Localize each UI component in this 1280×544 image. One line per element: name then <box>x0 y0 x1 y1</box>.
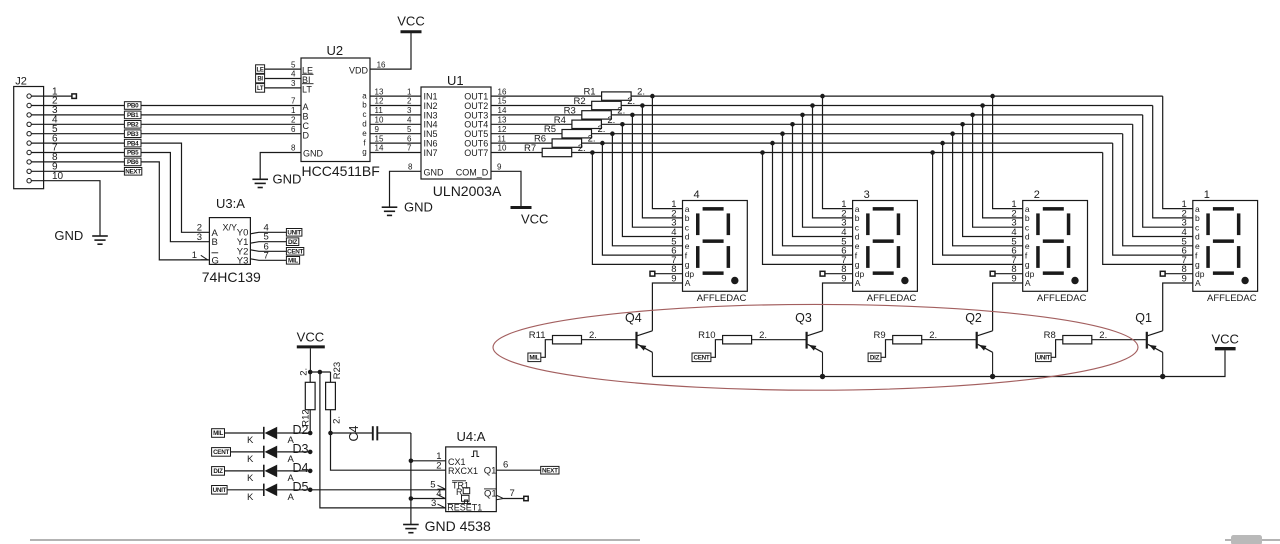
net label CENT to R10 <box>692 340 723 362</box>
net label PB5 <box>124 149 141 157</box>
U1 pin names IN7/OUT7 <box>424 148 489 158</box>
U1 OUT5 pin 12 wire to resistor R5 <box>491 125 562 134</box>
display 4 pin 3 label c <box>671 218 689 233</box>
svg-text:R11: R11 <box>529 330 546 341</box>
display 3 pin 3 label c <box>841 218 859 233</box>
U1 pin 8 GND wire to ground <box>390 163 445 208</box>
U1 OUT1 pin 16 wire to resistor R1 <box>491 87 602 96</box>
svg-text:D3: D3 <box>293 442 309 456</box>
wire U2 g (pin 14) to U1 IN7 (pin 7) <box>362 144 421 157</box>
display 4 pin 7 label g <box>671 255 689 270</box>
display 3 pin 8 label dp <box>841 264 864 279</box>
power VCC (bottom left) <box>297 330 325 373</box>
display 3 pin 6 label f <box>841 246 857 261</box>
resistor R6 <box>534 134 596 148</box>
svg-text:10: 10 <box>498 144 507 153</box>
wire PB6 to U3 G <box>141 162 209 260</box>
svg-text:A: A <box>1195 278 1201 288</box>
svg-text:CENT: CENT <box>213 449 229 456</box>
svg-text:16: 16 <box>377 61 386 70</box>
svg-text:12: 12 <box>498 125 507 134</box>
svg-text:VDD: VDD <box>349 66 369 76</box>
display 3 pin 1 label a <box>841 199 859 214</box>
U3 pin 3 B <box>197 232 218 248</box>
U4 pin 2 RXCX1 <box>436 460 478 476</box>
display 1 pin 8 label dp <box>1182 264 1205 279</box>
display 4 pin 4 label d <box>671 227 689 242</box>
svg-text:9: 9 <box>375 125 380 134</box>
wire bus e drop to display 2 pin 5 <box>953 134 1023 246</box>
svg-text:8: 8 <box>408 163 413 172</box>
svg-text:NEXT: NEXT <box>125 169 141 176</box>
display 1 pin 7 label g <box>1182 255 1200 270</box>
wire PB0 to U2 pin A <box>141 105 301 107</box>
svg-text:HCC4511BF: HCC4511BF <box>302 163 380 179</box>
U4 pin 1 CX1 <box>436 451 465 467</box>
junction dots on bus d <box>620 122 965 127</box>
svg-text:D5: D5 <box>293 480 309 494</box>
display 1 pin 5 label e <box>1182 236 1200 251</box>
resistor R23 (vertical) <box>326 362 343 433</box>
U2 pin 6 D <box>291 125 310 140</box>
resistor R5 <box>544 124 606 138</box>
wire bus f drop to display 4 pin 6 <box>602 143 682 255</box>
net label PB4 <box>124 139 141 147</box>
svg-text:GND: GND <box>424 168 445 178</box>
svg-text:K: K <box>247 492 254 503</box>
svg-text:Q2: Q2 <box>965 311 982 325</box>
bus wire segment b from R2 to display 1 <box>621 105 1152 107</box>
resistor R10 <box>698 330 805 344</box>
svg-text:LT: LT <box>302 85 312 95</box>
svg-text:13: 13 <box>375 87 384 96</box>
wire bus c drop to display 3 pin 3 <box>803 115 853 227</box>
svg-text:CENT: CENT <box>693 355 709 362</box>
ground (U4 / C4) <box>403 518 491 534</box>
bus wire segment f from R6 to display 1 <box>582 142 1113 144</box>
display 3 pin 2 label b <box>841 208 859 223</box>
svg-text:D2: D2 <box>293 423 309 437</box>
svg-text:LE: LE <box>257 67 264 73</box>
display 2 pin 7 label g <box>1011 255 1029 270</box>
IC U1 ULN2003A body <box>421 73 502 199</box>
wire anode bus to U4 TR (pin 5) <box>310 489 446 491</box>
svg-text:UNIT: UNIT <box>213 487 227 494</box>
net label PB3 <box>124 130 141 138</box>
svg-text:15: 15 <box>498 97 507 106</box>
svg-text:Q3: Q3 <box>795 311 812 325</box>
wire U2 f (pin 15) to U1 IN6 (pin 6) <box>363 134 421 147</box>
svg-text:U4:A: U4:A <box>457 429 486 444</box>
svg-text:7: 7 <box>291 97 296 106</box>
net label DIZ to diode D4 <box>212 467 264 476</box>
net label DIZ to R9 <box>868 340 893 362</box>
wire bus a drop to display 3 pin 1 <box>823 96 853 209</box>
display 2 pin 5 label e <box>1011 236 1029 251</box>
display 2 pin 3 label c <box>1011 218 1029 233</box>
svg-text:U3:A: U3:A <box>216 196 245 211</box>
resistor R1 <box>583 87 645 101</box>
svg-text:R8: R8 <box>1044 330 1056 341</box>
svg-text:PB6: PB6 <box>127 159 139 166</box>
wire VCC node to R12 R13 and reset line <box>308 370 331 375</box>
U3 output Y1 pin 5 to net label DIZ <box>237 232 299 248</box>
J2 pin 1 no-connect stub <box>31 94 76 99</box>
svg-text:UNIT: UNIT <box>287 230 301 237</box>
U4 pin 3 RESET1 <box>431 498 482 512</box>
svg-text:R23: R23 <box>332 362 343 379</box>
svg-text:PB3: PB3 <box>127 131 139 138</box>
resistor R8 <box>1044 330 1146 344</box>
U4 pin 4 TR2 (edge input) <box>436 487 470 503</box>
connector J2 <box>14 76 64 189</box>
wire U2 e (pin 9) to U1 IN5 (pin 5) <box>362 125 421 138</box>
net label PB6 <box>124 158 141 166</box>
svg-text:Q1: Q1 <box>1135 311 1152 325</box>
net label PB0 <box>124 102 141 110</box>
svg-text:GND: GND <box>404 200 433 215</box>
wire bus d drop to display 2 pin 4 <box>963 124 1023 236</box>
wire PB1 to U2 pin B <box>141 114 301 116</box>
wire J2 pin 4 to net label PB2 <box>31 123 124 125</box>
svg-text:R9: R9 <box>874 330 886 341</box>
display 1 pin 9 label A <box>1182 274 1201 289</box>
display 4 pin 1 label a <box>671 199 689 214</box>
svg-text:PB1: PB1 <box>127 112 139 119</box>
ground (U1 pin 8) <box>382 200 433 216</box>
wire display 3 pin 9 A to Q3 collector <box>823 283 853 331</box>
U1 pin names IN1/OUT1 <box>424 92 489 102</box>
wire bus e drop to display 3 pin 5 <box>783 134 853 246</box>
wire bus g drop to display 1 pin 7 <box>1103 153 1193 265</box>
svg-text:Q1: Q1 <box>484 488 497 499</box>
svg-text:DIZ: DIZ <box>870 355 880 362</box>
diode D2 <box>247 423 310 446</box>
svg-text:1: 1 <box>291 106 296 115</box>
U2 pin 3 LT <box>256 79 314 94</box>
svg-text:PB0: PB0 <box>127 103 139 110</box>
U1 OUT3 pin 14 wire to resistor R3 <box>491 106 582 115</box>
svg-text:c: c <box>363 110 367 119</box>
svg-text:DIZ: DIZ <box>288 239 298 246</box>
resistor R12 (vertical) <box>299 368 315 433</box>
wire bus c drop to display 2 pin 3 <box>973 115 1023 227</box>
svg-text:PB2: PB2 <box>127 122 139 129</box>
wire bus e drop to display 4 pin 5 <box>612 134 682 246</box>
display 1 pin 6 label f <box>1182 246 1198 261</box>
wire bus c drop to display 1 pin 3 <box>1143 115 1193 227</box>
display 4 pin 5 label e <box>671 236 689 251</box>
svg-text:11: 11 <box>498 134 507 143</box>
svg-text:Q1: Q1 <box>484 465 497 476</box>
svg-text:e: e <box>362 129 367 138</box>
svg-text:5: 5 <box>430 479 435 490</box>
transistor Q2 (PNP) <box>965 311 992 377</box>
net label UNIT to diode D5 <box>212 486 264 495</box>
svg-text:K: K <box>247 454 254 465</box>
diode D3 <box>247 442 310 465</box>
svg-text:GND: GND <box>273 172 302 187</box>
svg-text:GND: GND <box>303 148 324 158</box>
svg-text:OUT7: OUT7 <box>464 148 488 158</box>
svg-text:AFFLEDAC: AFFLEDAC <box>867 293 917 304</box>
display 3 pin 4 label d <box>841 227 859 242</box>
diode anode bus junction dots <box>308 431 313 492</box>
junction dots on bus e <box>610 131 955 136</box>
wire PB5 to U3 B <box>141 153 209 242</box>
wire bus d drop to display 3 pin 4 <box>793 124 853 236</box>
display 3 pin 9 label A <box>841 274 860 289</box>
U1 pin names IN4/OUT4 <box>424 120 489 130</box>
svg-text:GND: GND <box>54 228 83 243</box>
U1 OUT7 pin 10 wire to resistor R7 <box>491 144 542 153</box>
7-segment display DS1 (AFFLEDAC) body <box>1193 189 1258 304</box>
svg-text:1: 1 <box>1204 189 1210 201</box>
svg-text:2: 2 <box>1034 189 1040 201</box>
wire U2 c (pin 11) to U1 IN3 (pin 3) <box>363 106 422 119</box>
svg-text:MIL: MIL <box>213 430 223 437</box>
svg-text:10: 10 <box>375 116 384 125</box>
svg-text:VCC: VCC <box>521 212 548 227</box>
wire U2 a (pin 13) to U1 IN1 (pin 1) <box>362 87 421 100</box>
svg-text:X/Y: X/Y <box>223 223 238 233</box>
svg-text:3: 3 <box>864 189 870 201</box>
svg-text:13: 13 <box>498 116 507 125</box>
U3 output Y0 pin 4 to net label UNIT <box>237 222 302 238</box>
svg-text:4: 4 <box>694 189 700 201</box>
bus wire segment e from R5 to display 1 <box>592 133 1123 135</box>
svg-text:11: 11 <box>375 106 384 115</box>
bottom frame line <box>30 539 1280 541</box>
U2 pin 7 A <box>291 97 309 112</box>
svg-text:GND 4538: GND 4538 <box>425 518 491 534</box>
svg-text:d: d <box>362 120 366 129</box>
svg-text:A: A <box>685 278 691 288</box>
svg-text:6: 6 <box>503 460 508 471</box>
svg-text:3: 3 <box>291 79 296 88</box>
svg-text:CENT: CENT <box>287 249 303 256</box>
diode D4 <box>247 461 310 484</box>
display 4 segment graphic <box>696 207 739 284</box>
svg-text:VCC: VCC <box>1211 332 1238 347</box>
svg-text:1: 1 <box>407 87 412 96</box>
bus wire segment a from R1 to display 1 <box>631 95 1163 97</box>
wire C4 to CX1 / TR (pin 4) / ground <box>409 433 446 525</box>
svg-text:3: 3 <box>197 232 202 243</box>
svg-text:MIL: MIL <box>288 258 298 265</box>
wire U2 b (pin 12) to U1 IN2 (pin 2) <box>362 97 421 110</box>
svg-text:K: K <box>247 473 254 484</box>
svg-text:2: 2 <box>291 116 296 125</box>
net label NEXT <box>124 168 141 176</box>
svg-text:7: 7 <box>264 250 269 261</box>
U2 pin 8 GND wire to ground <box>260 144 301 180</box>
U2 pin 16 VDD wire to VCC <box>370 33 411 70</box>
display 2 pin 4 label d <box>1011 227 1029 242</box>
svg-text:9: 9 <box>497 163 502 172</box>
wire PB4 to U3 A <box>141 143 209 232</box>
display 4 pin 8 dp no-connect stub <box>650 271 683 276</box>
ground (U2 pin 8) <box>252 172 301 188</box>
svg-text:LT: LT <box>257 86 264 92</box>
wire J2 pin 8 to net label PB6 <box>31 161 124 163</box>
svg-text:VCC: VCC <box>297 330 324 345</box>
wire bus b drop to display 2 pin 2 <box>983 106 1023 218</box>
wire display 2 pin 9 A to Q2 collector <box>993 283 1023 331</box>
wire J2 pin 3 to net label PB1 <box>31 114 124 116</box>
svg-text:1: 1 <box>192 250 197 261</box>
svg-text:RXCX1: RXCX1 <box>448 466 478 476</box>
svg-text:U2: U2 <box>327 43 344 58</box>
svg-text:2.: 2. <box>331 416 342 424</box>
svg-text:b: b <box>362 101 367 110</box>
svg-text:12: 12 <box>375 97 384 106</box>
bottom right scrollbar fragment <box>1231 535 1262 544</box>
U4 pin 7 Q1-bar no-connect stub <box>484 488 528 501</box>
display 1 pin 1 label a <box>1182 199 1200 214</box>
display 2 pin 1 label a <box>1011 199 1029 214</box>
svg-text:VCC: VCC <box>397 14 424 29</box>
wire bus a drop to display 2 pin 1 <box>993 96 1023 209</box>
svg-text:ULN2003A: ULN2003A <box>433 183 502 199</box>
net label MIL to diode D2 <box>212 429 264 438</box>
svg-text:A: A <box>1025 278 1031 288</box>
transistor Q1 (PNP) <box>1135 311 1162 377</box>
svg-text:D4: D4 <box>293 461 309 475</box>
wire bus b drop to display 3 pin 2 <box>813 106 853 218</box>
svg-text:B: B <box>212 237 218 248</box>
svg-text:Q4: Q4 <box>625 311 642 325</box>
U1 OUT6 pin 11 wire to resistor R6 <box>491 134 552 143</box>
wire PB2 to U2 pin C <box>141 123 301 125</box>
power VCC (top, U2 VDD) <box>397 14 424 32</box>
svg-text:PB4: PB4 <box>127 140 139 147</box>
power VCC (below U1 COM_D) <box>511 208 549 227</box>
wire R23 node to U4 RXCX1 (pin 2) <box>331 433 446 470</box>
display 1 pin 8 dp no-connect stub <box>1160 271 1193 276</box>
wire bus f drop to display 3 pin 6 <box>773 143 853 255</box>
display 2 pin 9 label A <box>1011 274 1030 289</box>
wire J2 pin 7 to net label PB5 <box>31 152 124 154</box>
net label CENT to diode D3 <box>212 448 264 457</box>
wire display 1 pin 9 A to Q1 collector <box>1163 283 1193 331</box>
display 2 pin 2 label b <box>1011 208 1029 223</box>
IC U3:A 74HC139 body <box>202 196 261 285</box>
transistor Q3 (PNP) <box>795 311 822 377</box>
U1 pin names IN3/OUT3 <box>424 110 489 120</box>
svg-text:BI: BI <box>257 77 263 83</box>
U1 OUT2 pin 15 wire to resistor R2 <box>491 97 592 106</box>
svg-text:C4: C4 <box>347 425 361 441</box>
svg-text:D: D <box>303 130 310 140</box>
svg-text:IN7: IN7 <box>424 148 438 158</box>
svg-text:Y3: Y3 <box>237 256 249 267</box>
U1 pin names IN6/OUT6 <box>424 139 489 149</box>
svg-text:R7: R7 <box>524 143 536 154</box>
display 4 pin 8 label dp <box>671 264 694 279</box>
wire PB3 to U2 pin D <box>141 133 301 135</box>
wire bus f drop to display 1 pin 6 <box>1113 143 1193 255</box>
wire U2 d (pin 10) to U1 IN4 (pin 4) <box>362 116 421 129</box>
svg-text:7: 7 <box>407 144 412 153</box>
svg-text:2.: 2. <box>299 368 310 376</box>
svg-text:a: a <box>362 91 367 100</box>
wire bus b drop to display 4 pin 2 <box>642 106 682 218</box>
net label PB1 <box>124 111 141 119</box>
resistor R2 <box>574 96 636 110</box>
svg-text:NEXT: NEXT <box>542 467 558 474</box>
U3 pin 1 G (enable) <box>192 250 219 266</box>
wire bus g drop to display 2 pin 7 <box>933 153 1023 265</box>
display 4 pin 6 label f <box>671 246 687 261</box>
U1 OUT4 pin 13 wire to resistor R4 <box>491 116 572 125</box>
capacitor C4 <box>331 425 411 441</box>
wire J2 pin 6 to net label PB4 <box>31 142 124 144</box>
display 3 pin 8 dp no-connect stub <box>820 271 853 276</box>
net label MIL to R11 <box>528 340 553 362</box>
U2 pin 1 B <box>291 106 309 121</box>
IC U2 HCC4511BF body <box>301 43 380 179</box>
transistor Q4 (PNP) <box>625 311 652 377</box>
display 1 pin 4 label d <box>1182 227 1200 242</box>
IC U4:A 4538 body <box>446 429 497 512</box>
svg-text:2: 2 <box>407 97 412 106</box>
svg-text:14: 14 <box>375 144 384 153</box>
resistor R7 <box>524 143 586 157</box>
junction dots on emitter rail <box>820 374 1166 379</box>
svg-text:UNIT: UNIT <box>1037 355 1051 362</box>
svg-text:4: 4 <box>407 116 412 125</box>
svg-text:K: K <box>247 435 254 446</box>
svg-text:2: 2 <box>436 460 441 471</box>
svg-text:74HC139: 74HC139 <box>202 269 261 285</box>
svg-text:AFFLEDAC: AFFLEDAC <box>1207 293 1257 304</box>
svg-text:16: 16 <box>498 87 507 96</box>
wire bus g drop to display 4 pin 7 <box>592 153 682 265</box>
svg-text:4: 4 <box>291 70 296 79</box>
wire bus c drop to display 4 pin 3 <box>632 115 682 227</box>
bus wire segment g from R7 to display 1 <box>572 152 1103 154</box>
display 2 segment graphic <box>1036 207 1079 284</box>
wire J2 pin 10 to ground <box>31 181 100 236</box>
svg-text:15: 15 <box>375 134 384 143</box>
wire J2 pin 5 to net label PB3 <box>31 133 124 135</box>
junction dots on bus g <box>590 150 935 155</box>
wire bus f drop to display 2 pin 6 <box>943 143 1023 255</box>
resistor R9 <box>874 330 976 344</box>
wire bus d drop to display 4 pin 4 <box>622 124 682 236</box>
wire bus d drop to display 1 pin 4 <box>1133 124 1193 236</box>
wire bus e drop to display 1 pin 5 <box>1123 134 1193 246</box>
resistor R3 <box>564 105 626 119</box>
display 2 pin 8 dp no-connect stub <box>990 271 1023 276</box>
svg-text:3: 3 <box>407 106 412 115</box>
U1 pin names IN5/OUT5 <box>424 129 489 139</box>
U2 pin 2 C <box>291 116 310 131</box>
junction dots on bus c <box>630 113 975 118</box>
svg-text:6: 6 <box>291 125 296 134</box>
display 4 pin 2 label b <box>671 208 689 223</box>
bus wire segment c from R3 to display 1 <box>611 114 1142 116</box>
7-segment display DS4 (AFFLEDAC) body <box>683 189 748 304</box>
svg-text:8: 8 <box>291 144 296 153</box>
display 4 pin 9 label A <box>671 274 690 289</box>
U2 pin 5 LE <box>256 60 313 75</box>
7-segment display DS2 (AFFLEDAC) body <box>1023 189 1088 304</box>
bus wire segment d from R4 to display 1 <box>601 123 1132 125</box>
svg-text:DIZ: DIZ <box>213 468 223 475</box>
display 2 pin 8 label dp <box>1011 264 1034 279</box>
